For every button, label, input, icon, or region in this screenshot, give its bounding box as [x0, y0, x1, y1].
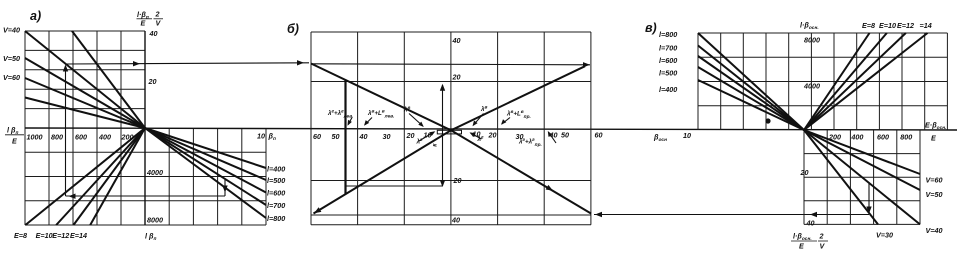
l=400 line panel v [698, 80, 804, 130]
V=50 line panel v [804, 130, 920, 190]
svg-text:λв: λв [480, 106, 487, 114]
svg-text:V=50: V=50 [926, 190, 943, 199]
example path stub from l=700 line down arrow [224, 179, 226, 196]
E=10 line [56, 128, 145, 225]
svg-text:E: E [799, 242, 804, 251]
svg-text:λв+Lвпр.: λв+Lвпр. [506, 110, 531, 120]
svg-text:V=40: V=40 [3, 26, 20, 35]
svg-text:E=10: E=10 [36, 231, 53, 240]
l=800 line panel v [698, 33, 804, 130]
svg-text:2: 2 [819, 232, 824, 241]
svg-text:E: E [141, 19, 146, 28]
svg-text:40: 40 [452, 36, 461, 45]
svg-text:λг+λгпр.: λг+λгпр. [518, 138, 542, 148]
long descending diagonal bent at center with mid arrow [311, 64, 591, 214]
panel b) grid [311, 32, 591, 225]
svg-text:E·βосн.: E·βосн. [925, 121, 946, 132]
main horizontal axis full width [25, 128, 957, 130]
svg-text:б): б) [287, 22, 299, 36]
E=14 line panel v [804, 33, 928, 130]
svg-text:2: 2 [155, 10, 160, 19]
example double-arrow vertical x=442.5 [442, 85, 444, 186]
V=40 line [25, 31, 145, 128]
E=10 line panel v [804, 33, 887, 130]
svg-text:50: 50 [332, 132, 340, 141]
l=700 line panel v [698, 46, 804, 131]
l=600 line [145, 128, 266, 193]
svg-text:40: 40 [806, 219, 815, 228]
l=600 line panel v [698, 56, 804, 130]
panel v) lower grid [804, 130, 920, 224]
svg-text:V: V [156, 19, 162, 28]
svg-text:V: V [820, 242, 826, 251]
svg-text:E: E [12, 137, 17, 146]
svg-text:20: 20 [148, 77, 157, 86]
example path vertical with up arrow in panel a [65, 66, 67, 196]
svg-text:20: 20 [452, 73, 461, 82]
l=800 line [145, 128, 266, 218]
l=400 line [145, 128, 266, 168]
svg-text:8000: 8000 [147, 216, 163, 225]
svg-text:4000: 4000 [803, 82, 820, 91]
panel a) upper-left grid [25, 31, 145, 128]
example path stub down arrow panel v [868, 183, 870, 212]
l=500 line panel v [698, 67, 804, 130]
top connector line from panel a to panel b with arrows [66, 63, 310, 64]
l=700 line [145, 128, 266, 205]
V=60 line [25, 78, 145, 128]
svg-text:400: 400 [98, 133, 111, 142]
svg-text:l=700: l=700 [659, 44, 677, 53]
svg-text:600: 600 [877, 133, 889, 142]
steep line from top edge [72, 31, 145, 128]
svg-text:к: к [432, 143, 439, 147]
svg-text:20: 20 [800, 168, 809, 177]
svg-text:λг+λглев.: λг+λглев. [327, 110, 353, 120]
svg-text:E=14: E=14 [70, 231, 87, 240]
svg-text:200: 200 [121, 133, 134, 142]
panel v) upper grid [698, 33, 947, 130]
svg-text:V=60: V=60 [926, 176, 943, 185]
svg-text:λв: λв [403, 106, 410, 114]
panel a) focal vertical line x=145 [144, 31, 146, 225]
svg-text:1000: 1000 [27, 133, 43, 142]
E=14 line [90, 128, 145, 225]
svg-text:40: 40 [149, 29, 158, 38]
V=30 line panel v [804, 130, 878, 224]
svg-text:400: 400 [850, 133, 863, 142]
example path horizontal segment y=196 with left arrow [66, 195, 226, 197]
svg-text:20: 20 [453, 176, 462, 185]
svg-text:V=30: V=30 [876, 231, 893, 240]
svg-text:E=12: E=12 [52, 231, 69, 240]
V=40 line panel v [804, 130, 920, 224]
svg-text:E: E [931, 134, 936, 143]
reference dot [765, 118, 770, 123]
E=12 line panel v [804, 33, 906, 130]
svg-text:l=800: l=800 [659, 30, 677, 39]
svg-text:50: 50 [561, 131, 569, 140]
svg-text:60: 60 [595, 131, 603, 140]
svg-text:E=12: E=12 [897, 21, 914, 30]
panel a) lower-left grid [25, 128, 121, 225]
svg-text:60: 60 [313, 132, 321, 141]
example horizontal y=186 [346, 185, 443, 187]
svg-text:200: 200 [828, 133, 841, 142]
svg-text:βосн: βосн [653, 133, 667, 144]
svg-text:l=700: l=700 [267, 201, 285, 210]
small rectangle under axis center [437, 130, 461, 134]
svg-text:l·βосн.: l·βосн. [800, 21, 819, 32]
svg-text:40: 40 [359, 132, 368, 141]
l=500 line [145, 128, 266, 180]
E=8 line [25, 128, 145, 225]
svg-text:V=60: V=60 [3, 73, 20, 82]
svg-text:30: 30 [383, 132, 391, 141]
svg-text:8000: 8000 [804, 36, 820, 45]
example horizontal across panel b at y=64 with right arrow [311, 64, 590, 65]
svg-text:l=400: l=400 [659, 85, 677, 94]
svg-text:E=8: E=8 [862, 21, 875, 30]
panel a) lower-right grid [25, 128, 266, 225]
svg-text:800: 800 [51, 133, 63, 142]
svg-text:4000: 4000 [146, 168, 163, 177]
unlabeled V line [25, 98, 145, 129]
svg-text:l=500: l=500 [267, 176, 285, 185]
svg-text:l=500: l=500 [659, 69, 677, 78]
E=8 line panel v [804, 33, 870, 130]
svg-text:l=600: l=600 [267, 189, 285, 198]
svg-text:l=600: l=600 [659, 56, 677, 65]
V=50 line [25, 58, 145, 128]
svg-text:10: 10 [257, 132, 265, 141]
svg-text:20: 20 [488, 131, 497, 140]
svg-text:40: 40 [451, 216, 460, 225]
svg-text:=14: =14 [920, 21, 932, 30]
E=12 line [74, 128, 146, 225]
svg-text:l βп: l βп [145, 232, 156, 243]
svg-text:E=10: E=10 [879, 21, 896, 30]
example thick vertical from descending to ascending diagonal [344, 80, 346, 194]
svg-text:800: 800 [900, 133, 912, 142]
svg-text:l=800: l=800 [267, 214, 285, 223]
svg-text:βп: βп [268, 132, 276, 143]
svg-text:l=400: l=400 [267, 165, 285, 174]
svg-text:10: 10 [683, 131, 691, 140]
svg-text:20: 20 [406, 131, 415, 140]
svg-text:в): в) [645, 21, 657, 35]
svg-text:а): а) [30, 9, 41, 23]
svg-text:E=8: E=8 [14, 231, 27, 240]
V=60 line panel v [804, 130, 920, 174]
long ascending diagonal bent at center with end arrow [314, 66, 586, 213]
svg-text:V=40: V=40 [926, 226, 943, 235]
svg-text:600: 600 [75, 133, 87, 142]
bottom connector from panel v to panel b with arrows [594, 214, 869, 216]
svg-text:l·βосн.: l·βосн. [793, 232, 812, 243]
svg-text:V=50: V=50 [3, 54, 20, 63]
